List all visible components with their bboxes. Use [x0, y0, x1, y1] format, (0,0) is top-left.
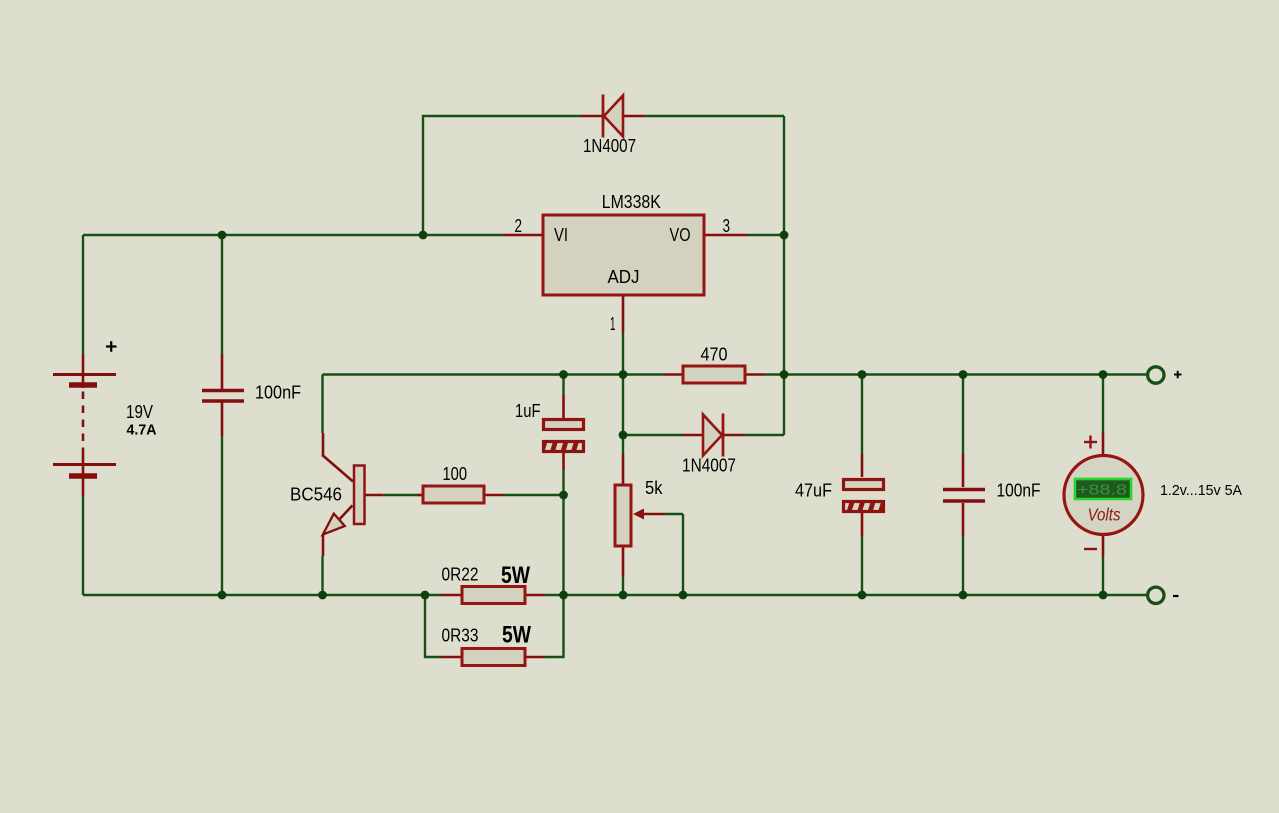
- pin R470 right: [745, 373, 765, 376]
- svg-text:0R22: 0R22: [442, 565, 479, 585]
- node bottom rail 47uF: [858, 591, 867, 600]
- node bottom rail emitter: [318, 591, 327, 600]
- pin R100 right pin: [418, 494, 424, 497]
- node bottom rail 0R33 left: [421, 591, 430, 600]
- node ADJ diode branch: [619, 431, 628, 440]
- pin 2 VI: [503, 234, 543, 237]
- capacitor 47uF (polarized): [844, 480, 884, 512]
- pin D1 right: [623, 115, 645, 118]
- svg-text:3: 3: [723, 216, 731, 236]
- resistor 470: [683, 366, 745, 383]
- wire top rail horizontal right of diode D1: [645, 115, 784, 117]
- node base resistor column: [559, 491, 568, 500]
- resistor 100 (base): [423, 486, 484, 503]
- pin pot bottom: [622, 546, 625, 577]
- pin pot top: [622, 454, 625, 485]
- pin 0R22 right: [525, 594, 545, 597]
- pin R100 left: [366, 494, 384, 497]
- svg-text:VI: VI: [554, 225, 568, 245]
- pin 1uF top: [562, 395, 565, 419]
- node bottom rail C1: [218, 591, 227, 600]
- terminal plus label: [1174, 371, 1182, 379]
- wire 1uF top stub: [562, 375, 564, 396]
- svg-text:ADJ: ADJ: [608, 267, 640, 287]
- pin 1 ADJ: [622, 296, 625, 333]
- pin 0R22 left: [441, 594, 462, 597]
- node mid rail voltmeter: [1099, 370, 1108, 379]
- node mid rail ADJ: [619, 370, 628, 379]
- pin C1 top: [221, 354, 224, 389]
- wire voltmeter top: [1102, 375, 1104, 434]
- wire resistor 100 to node column: [504, 494, 564, 496]
- node bottom rail 100nF: [959, 591, 968, 600]
- pin 1uF bottom: [562, 451, 565, 470]
- terminal output minus: [1148, 587, 1164, 603]
- svg-text:1: 1: [610, 314, 616, 334]
- voltmeter LCD display: [1075, 479, 1131, 499]
- wire pot wiper vertical to bottom rail: [682, 514, 684, 595]
- pin R470 left: [664, 373, 683, 376]
- pin voltmeter bottom: [1102, 535, 1105, 557]
- svg-text:47uF: 47uF: [795, 481, 832, 501]
- svg-text:5W: 5W: [502, 622, 531, 649]
- resistor 0R33 5W: [462, 649, 525, 666]
- svg-text:LM338K: LM338K: [602, 192, 661, 212]
- pin 100nF right bottom: [962, 503, 965, 536]
- resistor 0R22 5W: [462, 587, 525, 604]
- wire pot wiper to vertical: [665, 513, 683, 515]
- pin 3 VO: [704, 234, 747, 237]
- svg-text:100nF: 100nF: [255, 383, 301, 403]
- wire 47uF top: [861, 375, 863, 455]
- terminal output plus: [1148, 367, 1164, 383]
- pin 47uF bottom: [861, 513, 864, 536]
- wire ADJ column: [622, 333, 624, 454]
- pin 100nF right top: [962, 454, 965, 487]
- pin D2 right: [723, 434, 744, 437]
- svg-text:100nF: 100nF: [997, 481, 1041, 501]
- pin 0R33 right: [525, 656, 545, 659]
- wire pot bottom stub: [622, 577, 624, 595]
- svg-text:0R33: 0R33: [442, 626, 479, 646]
- terminal minus label: [1173, 595, 1179, 597]
- transistor Q1 BC546: [322, 433, 364, 556]
- node bottom rail pot: [619, 591, 628, 600]
- svg-text:Volts: Volts: [1088, 505, 1121, 525]
- wire ADJ node to lower diode: [623, 434, 682, 436]
- svg-text:19V: 19V: [126, 402, 153, 422]
- wire bottom rail to minus terminal: [1103, 594, 1149, 596]
- potentiometer RV1 5k body: [615, 485, 631, 546]
- svg-text:100: 100: [443, 464, 468, 484]
- node mid rail 1uF: [559, 370, 568, 379]
- voltmeter minus mark: [1084, 548, 1097, 550]
- wire bottom rail right part: [545, 594, 1103, 596]
- pin C1 bottom: [221, 403, 224, 437]
- battery plus mark: [106, 341, 117, 352]
- node mid rail 47uF: [858, 370, 867, 379]
- wire voltmeter bottom: [1102, 557, 1104, 595]
- wire bottom rail left part: [83, 594, 441, 596]
- voltmeter plus mark: [1084, 436, 1097, 449]
- diode D1 1N4007 (top, cathode left): [603, 95, 623, 138]
- pin 47uF top: [861, 454, 864, 477]
- svg-text:5W: 5W: [501, 562, 530, 589]
- capacitor C1 100nF (input): [202, 391, 244, 402]
- node bottom rail column: [559, 591, 568, 600]
- wire cap C1 bottom vertical: [221, 436, 223, 595]
- potentiometer wiper arrow: [633, 509, 665, 520]
- svg-text:1N4007: 1N4007: [682, 456, 736, 476]
- node bottom rail wiper: [679, 591, 688, 600]
- wire 1uF bottom column down to bottom rail: [562, 470, 564, 595]
- wire cap C1 top vertical: [221, 235, 223, 354]
- wire output mid rail left of R470: [323, 373, 665, 375]
- wire 100nF right bottom: [962, 536, 964, 595]
- wire base segment: [383, 494, 417, 496]
- pin D1 left: [581, 115, 603, 118]
- svg-text:1uF: 1uF: [515, 401, 541, 421]
- svg-text:4.7A: 4.7A: [127, 422, 157, 439]
- wire pin3 to x784: [747, 234, 784, 236]
- battery BT1 19V: [53, 375, 116, 477]
- wire lower diode to x784: [744, 434, 784, 436]
- svg-text:+88.8: +88.8: [1077, 482, 1127, 499]
- wire battery positive vertical: [82, 235, 84, 354]
- pin battery -: [82, 455, 85, 496]
- wire emitter vertical BC546: [321, 556, 323, 595]
- node mid rail 100nF: [959, 370, 968, 379]
- svg-text:1.2v...15v 5A: 1.2v...15v 5A: [1160, 482, 1242, 499]
- pin R100 to node: [484, 494, 504, 497]
- pin 0R33 left: [441, 656, 462, 659]
- svg-text:BC546: BC546: [290, 485, 342, 505]
- wire 0R33 right branch: [545, 595, 564, 657]
- node mid rail x784: [780, 370, 789, 379]
- wire 47uF bottom: [861, 536, 863, 595]
- svg-text:VO: VO: [670, 225, 691, 245]
- node battery/C1 top: [218, 231, 227, 240]
- svg-text:2: 2: [515, 216, 523, 236]
- svg-text:1N4007: 1N4007: [583, 136, 636, 156]
- wire top rail horizontal left of diode D1: [423, 116, 581, 235]
- wire 100nF right top: [962, 375, 964, 455]
- node pin3 rail: [780, 231, 789, 240]
- wire input rail from battery to pin VI: [83, 234, 503, 236]
- capacitor 1uF (polarized): [544, 420, 584, 452]
- node top rail branch: [419, 231, 428, 240]
- svg-text:470: 470: [701, 345, 728, 365]
- node bottom rail voltmeter: [1099, 591, 1108, 600]
- capacitor 100nF (output): [943, 490, 985, 502]
- pin voltmeter top: [1102, 433, 1105, 456]
- svg-text:5k: 5k: [645, 478, 663, 498]
- wire collector vertical BC546: [321, 375, 323, 434]
- diode D2 1N4007 (mid, cathode right): [703, 414, 723, 457]
- wire vertical x784 from top rail to lower diode: [783, 116, 785, 435]
- wire battery negative vertical: [82, 496, 84, 595]
- pin battery +: [82, 354, 85, 388]
- voltmeter body: [1064, 456, 1143, 535]
- pin D2 left: [682, 434, 703, 437]
- wire 0R33 left branch: [425, 595, 441, 657]
- wire output mid rail right of R470 to plus terminal: [765, 373, 1149, 375]
- regulator U1 LM338K body: [543, 215, 704, 295]
